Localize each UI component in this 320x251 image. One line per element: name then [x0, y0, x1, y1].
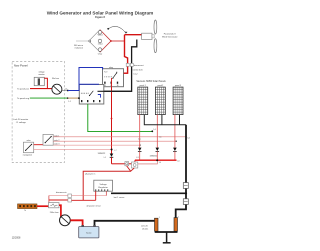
svg-text:L-6: L-6 — [177, 160, 179, 162]
svg-text:Figure 8: Figure 8 — [95, 16, 105, 19]
svg-text:7b: 7b — [24, 210, 26, 212]
svg-text:Regulator: Regulator — [98, 186, 108, 189]
svg-text:1-4: 1-4 — [153, 129, 155, 131]
svg-text:500 micro: 500 micro — [74, 44, 84, 47]
svg-text:12/2008: 12/2008 — [12, 236, 21, 239]
svg-text:navigation: navigation — [23, 154, 32, 157]
svg-text:Nav Panel: Nav Panel — [14, 63, 28, 67]
svg-text:L-7: L-7 — [114, 150, 116, 152]
svg-text:solar 1: solar 1 — [54, 135, 59, 137]
svg-text:relay: relay — [109, 66, 113, 69]
svg-text:1N5822: 1N5822 — [98, 153, 106, 155]
svg-text:Char: Char — [98, 53, 103, 56]
svg-text:panel 1: panel 1 — [140, 85, 146, 87]
svg-text:L-3: L-3 — [136, 157, 138, 159]
svg-text:L-1: L-1 — [104, 157, 106, 159]
svg-text:1: 1 — [159, 217, 160, 219]
svg-text:Wind Generator and Solar Panel: Wind Generator and Solar Panel Wiring Di… — [47, 10, 153, 15]
svg-text:1 Bat: 1 Bat — [98, 43, 103, 46]
svg-text:panel 3: panel 3 — [175, 85, 181, 87]
svg-text:solar 2: solar 2 — [54, 140, 59, 142]
svg-text:Link 20: Link 20 — [141, 225, 149, 227]
svg-text:3-4: 3-4 — [187, 138, 189, 140]
svg-text:1N5822: 1N5822 — [150, 156, 158, 158]
svg-text:Link 20 monitor: Link 20 monitor — [13, 118, 28, 121]
svg-text:house: house — [86, 233, 92, 235]
svg-text:Wind Generator: Wind Generator — [162, 36, 178, 39]
svg-text:all power in: all power in — [85, 172, 95, 175]
svg-text:85: 85 — [104, 85, 106, 87]
svg-text:monitor: monitor — [38, 73, 45, 76]
svg-text:200a fuse: 200a fuse — [50, 212, 60, 214]
svg-text:voltage: voltage — [38, 70, 44, 73]
svg-text:all power in bat: all power in bat — [87, 205, 101, 208]
svg-text:1-4: 1-4 — [65, 89, 68, 91]
svg-text:bat 1 sense: bat 1 sense — [114, 196, 125, 199]
svg-text:L-b: L-b — [159, 137, 161, 139]
svg-text:1-1: 1-1 — [68, 101, 71, 103]
svg-text:1: 1 — [178, 216, 179, 218]
svg-text:#1 voltage: #1 voltage — [16, 121, 27, 124]
svg-text:To panel pos: To panel pos — [17, 88, 29, 90]
svg-text:To panel neg: To panel neg — [17, 98, 30, 100]
svg-text:induction: induction — [75, 46, 84, 49]
svg-text:30a fuse: 30a fuse — [52, 78, 59, 80]
svg-text:Siemens SM50 Solar Panels: Siemens SM50 Solar Panels — [136, 80, 166, 83]
svg-text:Voltage: Voltage — [99, 183, 107, 186]
svg-text:panel2: panel2 — [157, 85, 163, 87]
svg-text:4 white 3c/m: 4 white 3c/m — [132, 69, 144, 72]
svg-text:30: 30 — [117, 85, 119, 87]
svg-text:disconnect: disconnect — [134, 64, 144, 67]
svg-text:solar: solar — [26, 139, 30, 142]
svg-text:shunts: shunts — [142, 228, 148, 231]
svg-text:solar 3: solar 3 — [54, 144, 59, 146]
svg-text:disconnects: disconnects — [56, 191, 67, 194]
svg-text:Wind: Wind — [98, 35, 104, 37]
svg-text:Fourwinds II: Fourwinds II — [164, 33, 176, 36]
svg-text:1-4: 1-4 — [159, 162, 161, 164]
